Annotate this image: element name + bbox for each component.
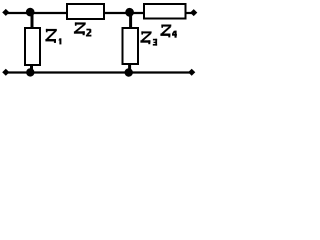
impedance Z4 box (144, 4, 186, 19)
wire Z3 top stub (129, 13, 132, 28)
label Z1 (45, 29, 61, 44)
terminal bottom-left (2, 69, 9, 76)
wire bottom rail (5, 71, 192, 73)
terminal bottom-right (188, 69, 195, 76)
terminal top-left (2, 9, 9, 16)
node junction dot top-left (26, 8, 35, 17)
impedance Z2 box (67, 4, 104, 19)
label Z3 (140, 31, 157, 45)
wire Z1 top stub (31, 13, 34, 28)
wire top-right rail (185, 12, 194, 14)
label Z4 (160, 25, 177, 38)
impedance Z3 box (123, 28, 139, 64)
node junction dot bottom-middle (125, 68, 133, 76)
wire top-left rail (5, 12, 67, 14)
impedance Z1 box (25, 28, 40, 65)
wire top-middle rail (102, 12, 144, 14)
node junction dot bottom-left (26, 68, 34, 76)
node junction dot top-middle (125, 8, 134, 17)
label Z2 (74, 22, 92, 36)
wire Z3 bottom stub (128, 64, 131, 73)
wire Z1 bottom stub (30, 65, 33, 73)
terminal top-right (190, 9, 197, 16)
